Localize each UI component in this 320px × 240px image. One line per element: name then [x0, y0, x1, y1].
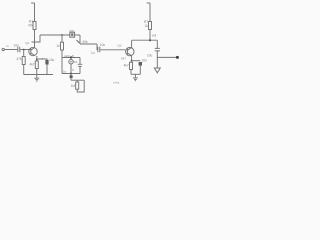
resistor R2 — [22, 57, 25, 65]
svg-text:t=1s: t=1s — [114, 81, 120, 85]
C3 value label — [91, 51, 95, 55]
svg-text:C: C — [72, 68, 75, 72]
wire — [139, 66, 141, 75]
VCC arrow left — [31, 2, 35, 4]
svg-text:1k: 1k — [145, 24, 149, 28]
capacitor C2 — [45, 60, 48, 65]
wire — [156, 51, 158, 58]
caption — [114, 81, 120, 85]
node D1 — [70, 56, 72, 58]
wire — [132, 39, 158, 41]
wire — [79, 35, 81, 44]
svg-text:47k: 47k — [16, 57, 22, 61]
svg-text:10u: 10u — [14, 43, 20, 47]
wire — [149, 30, 151, 41]
trimmer arrow RV1 — [77, 40, 80, 43]
svg-text:LED: LED — [64, 54, 71, 58]
wire sub right — [79, 58, 81, 65]
R7 label — [144, 20, 148, 28]
svg-text:10u: 10u — [147, 54, 153, 58]
capacitor C7 — [155, 48, 160, 51]
wire — [156, 40, 158, 48]
svg-text:1u: 1u — [91, 51, 95, 55]
wire — [36, 60, 38, 75]
C7 label — [147, 54, 153, 58]
capacitor C4 — [78, 64, 83, 66]
wire collector Q2 — [131, 40, 133, 47]
sub label a — [64, 54, 71, 58]
wire — [156, 57, 158, 68]
wire emitter to cap — [37, 59, 47, 60]
ground rail right — [131, 73, 140, 75]
wire — [34, 3, 36, 22]
Q2 label — [118, 44, 122, 48]
svg-text:SW: SW — [69, 29, 74, 33]
transistor Q2 — [126, 47, 134, 55]
node base Q1 — [23, 49, 25, 51]
plus label — [42, 56, 44, 60]
wire — [149, 3, 151, 22]
wire — [70, 74, 72, 76]
wire — [79, 66, 81, 73]
svg-text:10u: 10u — [100, 43, 106, 47]
transistor Q1 — [29, 47, 37, 55]
C2 label — [49, 58, 55, 62]
input terminal — [2, 48, 4, 50]
out label — [152, 33, 157, 37]
wire sub left — [61, 58, 63, 74]
wire — [23, 65, 25, 75]
svg-text:4k7: 4k7 — [124, 64, 129, 68]
wire — [75, 34, 80, 36]
wire — [61, 35, 63, 42]
capacitor C1 — [18, 47, 20, 52]
wire collector tap jog — [32, 35, 41, 42]
svg-text:4k7: 4k7 — [29, 63, 34, 67]
Q2 part label — [121, 57, 126, 61]
wire — [80, 43, 97, 45]
svg-text:out: out — [152, 33, 157, 37]
wire — [157, 56, 176, 58]
ground — [133, 74, 138, 80]
node emitter Q2 — [131, 60, 133, 62]
svg-text:1k: 1k — [56, 44, 60, 48]
wire — [130, 61, 133, 75]
capacitor C3 — [98, 47, 100, 52]
svg-text:50k: 50k — [83, 40, 89, 44]
ground — [34, 75, 39, 82]
sub label b — [72, 54, 75, 58]
wire — [132, 60, 141, 62]
wire sub top — [62, 57, 80, 59]
node sub bottom — [70, 73, 72, 75]
resistor R6 — [130, 62, 133, 69]
switch S1 — [70, 32, 75, 37]
C1 label — [14, 43, 20, 47]
ground triangle — [154, 68, 160, 73]
wire — [61, 50, 63, 58]
wire — [46, 65, 48, 75]
resistor R5 — [76, 82, 79, 89]
input label — [6, 44, 9, 48]
wire — [23, 50, 25, 57]
R3 label — [29, 63, 34, 67]
svg-text:10u: 10u — [142, 58, 148, 62]
svg-text:+: + — [42, 56, 44, 60]
wire — [70, 78, 72, 80]
wire — [71, 79, 84, 81]
svg-text:547: 547 — [121, 57, 126, 61]
svg-text:in: in — [6, 44, 9, 48]
capacitor C5 — [70, 75, 73, 78]
D1 label — [74, 60, 78, 64]
svg-text:47k: 47k — [28, 24, 34, 28]
svg-text:D1: D1 — [74, 60, 78, 64]
node emitter Q1 — [36, 59, 38, 61]
R2 label — [16, 57, 22, 61]
svg-text:1k: 1k — [63, 69, 67, 73]
resistor R4 — [61, 42, 64, 50]
wire — [76, 80, 78, 82]
R4 label — [56, 44, 60, 48]
C3 label — [100, 43, 106, 47]
VCC arrow right — [147, 2, 150, 4]
R5 label — [71, 84, 76, 88]
RV1 label — [83, 40, 89, 44]
node out — [149, 39, 151, 41]
resistor R3 — [35, 61, 38, 69]
wire sub bottom — [62, 73, 80, 75]
resistor R7 — [149, 22, 152, 30]
wire — [40, 34, 70, 36]
wire emitter Q2 — [131, 56, 133, 61]
wire — [5, 49, 18, 51]
svg-text:1M: 1M — [71, 84, 76, 88]
resistor R1 — [33, 22, 36, 30]
wire — [96, 44, 99, 50]
sub label c — [63, 69, 67, 73]
node R4 top — [61, 34, 63, 36]
R6 label — [124, 64, 129, 68]
wire — [34, 30, 36, 48]
capacitor C6 — [139, 62, 142, 66]
C6 label — [142, 58, 148, 62]
wire — [20, 49, 31, 51]
wire — [100, 49, 126, 51]
R1 label — [28, 20, 34, 28]
svg-text:10u: 10u — [49, 58, 55, 62]
wire — [77, 80, 84, 92]
sub label d — [72, 68, 75, 72]
S1 label — [69, 29, 74, 33]
svg-text:Q2: Q2 — [118, 44, 122, 48]
LED D1 — [69, 60, 73, 64]
Q1 label — [25, 41, 29, 45]
wire — [70, 64, 72, 74]
ground rail left — [24, 74, 53, 76]
wire — [36, 56, 38, 60]
output terminal — [176, 56, 179, 59]
svg-text:Q1: Q1 — [25, 41, 29, 45]
